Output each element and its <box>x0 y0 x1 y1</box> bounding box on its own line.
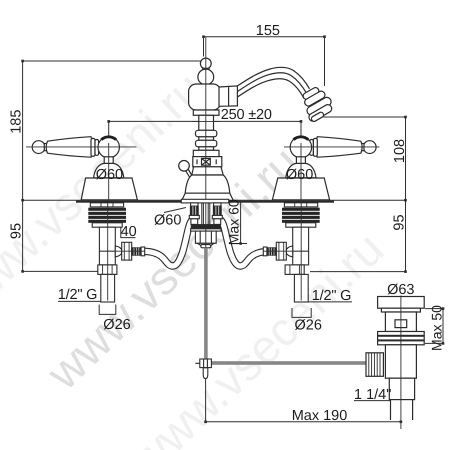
Max190 dimension line <box>206 379 401 422</box>
diverter X square <box>197 158 216 165</box>
left escutcheon <box>81 178 137 200</box>
1 1/4 leader <box>354 400 390 402</box>
right handle axis line <box>284 146 380 148</box>
drain ring1 <box>378 332 425 336</box>
svg-text:Ø26: Ø26 <box>103 317 130 333</box>
dimension 250±20 line <box>109 121 301 135</box>
drain flange lip <box>381 308 420 312</box>
center body tubes <box>202 203 210 225</box>
right tailpiece thread <box>213 206 221 215</box>
right tailpiece nut band <box>214 203 221 206</box>
left valve body <box>99 227 115 265</box>
svg-text:Max 190: Max 190 <box>292 408 348 424</box>
svg-text:40: 40 <box>121 224 137 240</box>
dimension 185/95 left line <box>23 61 201 271</box>
svg-text:1/2" G: 1/2" G <box>58 287 97 303</box>
left port axis overlay <box>100 250 145 252</box>
left 95 bottom extension <box>23 270 100 272</box>
right handle neck <box>296 157 305 164</box>
left hose <box>145 220 193 266</box>
mounting bar <box>191 225 220 229</box>
deck extension line <box>23 199 406 201</box>
left port stud <box>132 248 141 255</box>
left port crimp <box>141 247 145 256</box>
diverter box <box>193 157 222 167</box>
bell tier2 <box>185 175 230 193</box>
left valve lower nut <box>98 265 117 275</box>
column stem2 <box>199 137 214 141</box>
left lever grip <box>46 137 93 158</box>
pop-up vertical rod <box>204 248 208 360</box>
watermark <box>36 136 310 400</box>
left port bump <box>115 246 122 257</box>
dimension 155 line <box>204 37 325 86</box>
spout finial ball <box>200 58 211 69</box>
column flare ring <box>193 110 219 115</box>
right handle dome <box>286 163 316 177</box>
center flange <box>181 199 228 203</box>
svg-text:95: 95 <box>392 214 408 230</box>
svg-text:Ø60: Ø60 <box>286 167 313 183</box>
drain lower pipe <box>391 400 413 420</box>
left port axis <box>100 250 145 252</box>
dimension 108/95 right line <box>310 117 406 272</box>
column stem1 <box>199 115 214 130</box>
svg-text:Max 60: Max 60 <box>225 199 241 245</box>
right port bump <box>286 246 293 257</box>
left hose collar <box>191 219 198 225</box>
right ball joint <box>290 137 311 158</box>
bell base <box>182 193 233 200</box>
right valve body <box>293 227 309 265</box>
right valve thread bars <box>282 208 320 223</box>
column ring1 <box>196 130 217 137</box>
svg-text:Ø60: Ø60 <box>154 213 181 229</box>
rod pin <box>203 368 208 379</box>
column wide ring <box>193 150 219 156</box>
left tailpiece tube <box>192 219 196 225</box>
right lever grip <box>316 137 363 158</box>
left assembly center line <box>108 143 109 301</box>
right assembly center line <box>300 143 302 301</box>
drain knurl nut <box>366 353 383 377</box>
svg-text:95: 95 <box>9 223 25 239</box>
left tailpiece washer <box>189 215 199 218</box>
svg-text:185: 185 <box>9 110 25 134</box>
svg-text:1 1/4": 1 1/4" <box>354 387 391 403</box>
left ball cap <box>101 137 116 140</box>
40 bracket <box>121 227 136 238</box>
svg-text:Max 50: Max 50 <box>428 305 444 351</box>
left handle neck <box>104 157 113 164</box>
Max50 bracket <box>425 309 444 344</box>
column ring2 <box>196 140 217 147</box>
right port axis <box>263 250 308 252</box>
mounting plate <box>191 229 221 231</box>
left port hex <box>122 242 132 260</box>
spout arm top outline <box>237 67 310 88</box>
right port stud <box>267 248 276 255</box>
rod clamp <box>200 359 212 368</box>
spout ball2 <box>198 69 214 85</box>
right valve locknut <box>286 223 316 227</box>
popup tip <box>201 245 211 248</box>
column stem3 <box>199 147 214 151</box>
right valve flange <box>284 203 317 207</box>
right hose <box>221 220 269 266</box>
right tailpiece washer <box>212 215 222 218</box>
1/2G right leader <box>295 301 352 303</box>
pull knob stem <box>186 170 194 180</box>
svg-text:1/2" G: 1/2" G <box>312 288 351 304</box>
left lever neck <box>44 144 47 151</box>
spout arm bottom outline <box>237 79 304 99</box>
pull knob <box>179 161 190 172</box>
drain tailpipe <box>389 378 414 399</box>
aerator ring3 <box>305 96 332 117</box>
right port hex <box>276 242 286 260</box>
left handle axis line <box>26 146 137 148</box>
right valve pipe <box>294 274 308 302</box>
1/2G left leader <box>58 300 115 302</box>
drain ring2 <box>378 336 425 340</box>
svg-text:Ø26: Ø26 <box>295 317 322 333</box>
pop-up horizontal rod <box>211 361 366 365</box>
right tailpiece tube <box>215 219 219 225</box>
spout bulb <box>189 84 221 110</box>
svg-text:Ø63: Ø63 <box>387 282 414 298</box>
spout arm inner line <box>237 73 307 94</box>
drain flange <box>378 297 425 309</box>
drain upper body <box>385 312 416 332</box>
aerator ring4 <box>308 103 334 122</box>
aerator cap <box>311 111 325 122</box>
left valve flange <box>90 203 123 207</box>
right port crimp <box>263 247 267 256</box>
left lever collar <box>91 138 95 156</box>
drain body hole <box>395 320 407 328</box>
left valve locknut <box>92 223 122 227</box>
popup hex <box>195 231 216 243</box>
spout hex connector <box>219 86 237 106</box>
right hose collar <box>214 219 221 225</box>
Ø26 left bracket <box>99 305 116 315</box>
left valve thread bars <box>88 208 126 223</box>
left tailpiece thread <box>190 206 198 215</box>
right lever neck <box>361 144 364 151</box>
aerator ring1 <box>302 86 320 100</box>
aerator ring2 <box>303 90 326 108</box>
right port axis overlay <box>263 250 308 252</box>
right lever tip ball <box>363 141 376 154</box>
right valve lower nut <box>285 265 304 275</box>
Ø60 center leader <box>164 208 186 213</box>
drain lower body <box>385 345 416 378</box>
right lever collar <box>313 138 317 156</box>
svg-text:250 ±20: 250 ±20 <box>221 107 272 123</box>
bell tier1 <box>192 167 223 175</box>
finial stem <box>203 68 209 71</box>
Ø26 right bracket <box>292 308 311 317</box>
left tailpiece nut band <box>191 203 198 206</box>
left handle dome <box>94 163 124 177</box>
drain center line <box>400 296 402 430</box>
drain ring3 <box>378 341 425 345</box>
popup hex taper <box>197 243 214 245</box>
Max60 bracket <box>229 202 247 244</box>
spout column center line <box>205 37 207 248</box>
right escutcheon <box>272 178 329 200</box>
left lever tip ball <box>32 141 45 154</box>
left ball joint <box>98 137 119 158</box>
deck thick line <box>76 201 334 203</box>
svg-text:Ø60: Ø60 <box>96 167 123 183</box>
svg-text:155: 155 <box>256 23 280 39</box>
250 dim line over column <box>192 120 220 122</box>
right ball cap <box>294 137 309 140</box>
svg-text:108: 108 <box>392 139 408 163</box>
left valve pipe <box>101 274 115 302</box>
